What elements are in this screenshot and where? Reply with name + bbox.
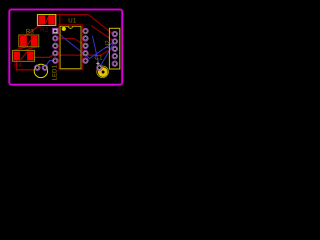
LED1 pad 2	[42, 65, 47, 70]
wire R4 right to U1 pad4	[34, 53, 56, 57]
op-amp U1 pin1 dot	[62, 27, 66, 31]
capacitor C1 plus mark	[96, 62, 99, 66]
LED1 body circle	[34, 64, 47, 77]
op-amp U1 silk outline	[60, 26, 81, 68]
svg-text:R2: R2	[40, 27, 49, 34]
resistor R3 body hatch	[27, 35, 35, 46]
op-amp U1 pad 2	[53, 36, 58, 41]
svg-text:R4: R4	[14, 62, 23, 69]
svg-text:U1: U1	[68, 18, 76, 25]
connector U2 pin 2	[112, 39, 117, 44]
resistor R2 pad 2	[48, 16, 55, 25]
op-amp U1 pad 6	[83, 58, 88, 63]
resistor R3 pad 1	[20, 36, 27, 46]
wire R3 right to R4 left	[24, 46, 38, 50]
op-amp U1 notch	[68, 26, 72, 28]
op-amp U1 pad 10	[83, 28, 88, 33]
resistor R4 pad 2	[27, 52, 34, 61]
resistor R2 courtyard	[37, 15, 55, 26]
op-amp U1 fab outline	[59, 25, 83, 70]
capacitor C1 pad 1	[97, 65, 102, 70]
svg-text:U2: U2	[104, 40, 111, 48]
op-amp U1 pad 5	[53, 58, 58, 63]
capacitor C1 pad 2 disc	[98, 67, 108, 77]
wire bottom copper U1 pad1 to U2 pin2 to C1	[55, 31, 115, 68]
wire bottom copper U1 pad5 to LED pad2	[45, 60, 55, 67]
resistor R4 pad 1	[14, 52, 20, 61]
op-amp U1 pad 4	[53, 51, 58, 56]
wire R4 gap to R3 right	[20, 51, 27, 60]
connector U2 pin 4	[112, 54, 117, 59]
op-amp U1 pad 7	[83, 51, 88, 56]
connector U2 silk outline	[109, 28, 119, 69]
wire bottom copper arm to C1	[93, 36, 100, 68]
capacitor C1 body outline	[97, 66, 109, 78]
resistor R2 pad 1	[38, 16, 45, 25]
op-amp U1 pad 1	[53, 28, 58, 33]
wire R2 right pad to U2 pin1	[56, 15, 115, 34]
op-amp U1 pad 3	[53, 43, 58, 48]
capacitor C1 pad 2 hole	[102, 71, 105, 74]
resistor R3 pad 2	[31, 36, 38, 46]
wire U1 internal pad2	[56, 38, 86, 45]
connector U2 pin 1	[112, 31, 117, 36]
wire top trace to U1 pad1	[56, 15, 60, 31]
wire branch to U2 pin2	[91, 26, 114, 42]
op-amp U1 pad 9	[83, 36, 88, 41]
background	[0, 0, 132, 94]
resistor R4 courtyard	[13, 50, 35, 61]
svg-text:R3: R3	[26, 29, 35, 36]
svg-text:LED1: LED1	[51, 65, 58, 81]
board outline glow	[9, 10, 122, 85]
wire R3 gap to R2 left pad	[25, 25, 41, 36]
wire U1 pad4 to U2 pin3	[55, 49, 115, 55]
connector U2 pin 3	[112, 46, 117, 51]
LED1 pad 1	[35, 65, 40, 70]
op-amp U1 pad 8	[83, 43, 88, 48]
wire R3 left to R4 left	[13, 46, 28, 50]
svg-text:C1: C1	[94, 54, 103, 61]
connector U2 pin 5	[112, 61, 117, 66]
wire R4 left to LED pad1	[16, 60, 35, 70]
resistor R3 courtyard	[19, 35, 39, 47]
board outline	[9, 10, 122, 85]
resistor R2 body hatch	[45, 16, 48, 24]
